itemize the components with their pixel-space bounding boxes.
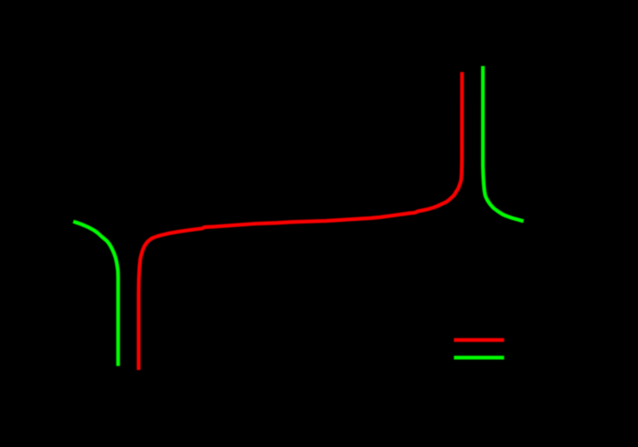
green curve, left branch: descending to vertical asymptote at x=118 [73, 222, 118, 367]
red curve: rising S-curve with vertical asymptotes at x=138 and x=462 [139, 72, 462, 370]
legend sample line, red series [454, 338, 504, 342]
legend sample line, green series [454, 356, 504, 360]
green curve, right branch: descending from vertical asymptote at x=483 [483, 66, 524, 221]
